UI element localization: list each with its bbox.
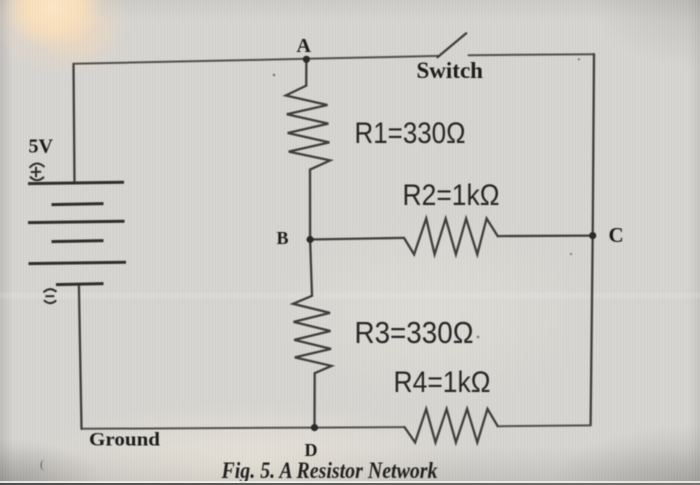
battery long plate 2 (28, 221, 125, 222)
wire: node B to R2 left lead (310, 238, 404, 240)
svg-text:Ground: Ground (89, 430, 160, 451)
battery short plate 1 (52, 204, 104, 205)
stray photo speck (273, 74, 275, 76)
svg-text:D: D (305, 440, 318, 460)
wire: bottom-left corner to node D (82, 428, 315, 429)
battery minus polarity symbol (-) rotated (44, 289, 57, 303)
wire: R4 right lead to bottom-right corner (498, 424, 591, 427)
svg-text:Switch: Switch (417, 58, 484, 83)
battery negative short plate (56, 284, 104, 285)
svg-text:R2=1kΩ: R2=1kΩ (403, 179, 500, 212)
resistor R3 zigzag (293, 296, 332, 373)
wire: node D to R4 left lead (315, 426, 405, 429)
wire: node B down to R3 top lead (310, 240, 312, 296)
svg-text:R3=330Ω: R3=330Ω (355, 315, 474, 350)
svg-text:B: B (277, 228, 289, 248)
wire: node A to switch left terminal (306, 56, 438, 59)
battery positive long plate (28, 182, 124, 183)
svg-text:R4=1kΩ: R4=1kΩ (394, 366, 491, 399)
svg-text:C: C (609, 223, 624, 247)
stray photo speck (570, 253, 572, 255)
battery long plate 3 (29, 262, 127, 263)
svg-text:R1=330Ω: R1=330Ω (355, 117, 466, 150)
wire: R3 bottom lead to node D (313, 373, 316, 427)
svg-text:A: A (297, 35, 312, 57)
stray photo speck (477, 336, 480, 339)
node A junction dot (303, 56, 310, 63)
svg-text:5V: 5V (29, 136, 54, 158)
wire: battery positive lead up to top-left corner (74, 64, 75, 184)
resistor R1 zigzag (286, 86, 330, 170)
wire: battery negative lead down to bottom-left corner (79, 284, 82, 429)
bottom screen-edge light line (0, 481, 700, 483)
switch blade (438, 33, 467, 57)
node C junction dot (589, 232, 596, 239)
svg-text:(: ( (40, 457, 44, 471)
wire: R2 right lead to node C (498, 234, 593, 237)
bottom screen-edge dark line (0, 483, 700, 485)
battery short plate 2 (52, 241, 104, 242)
wire: R1 bottom lead to node B (309, 170, 311, 240)
wire: node A down to R1 top lead (305, 59, 307, 86)
wire: top horizontal from corner to node A (74, 59, 307, 64)
svg-text:Fig. 5. A Resistor Network: Fig. 5. A Resistor Network (221, 458, 438, 483)
wire: node C down to bottom-right corner (591, 236, 593, 426)
node D junction dot (311, 424, 318, 431)
stray photo speck (578, 58, 580, 60)
resistor R2 zigzag (404, 219, 498, 255)
node B junction dot (307, 236, 314, 243)
battery plus polarity symbol (+) rotated (30, 163, 45, 180)
wire: switch right terminal to top-right corner (469, 54, 595, 55)
wire: right vertical, top corner to node C (593, 54, 594, 235)
resistor R4 zigzag (405, 409, 498, 443)
